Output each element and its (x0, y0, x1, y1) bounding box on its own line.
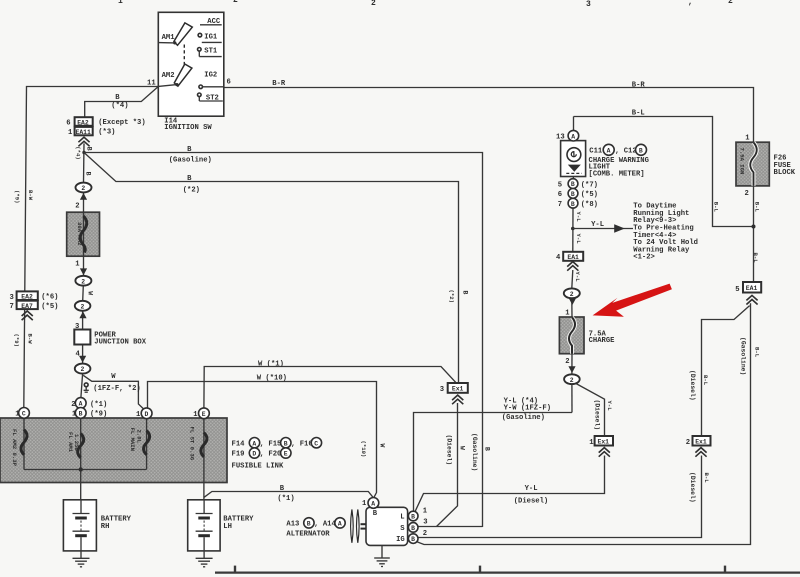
chevron below EA7 (22, 311, 33, 320)
svg-text:B: B (411, 514, 415, 521)
chevron below Ex1-3 (452, 395, 463, 404)
wire Y-L (Diesel) from Ex1-1 to alternator L (415, 456, 605, 513)
node D circle (141, 408, 152, 419)
wire label Y-L (Diesel) (514, 485, 549, 506)
svg-text:5: 5 (558, 181, 562, 189)
svg-text:(*3): (*3) (98, 129, 115, 137)
svg-text:EA1: EA1 (746, 285, 758, 292)
alternator legend A13/A14 (286, 518, 345, 539)
fusible link block (hatched) (0, 418, 227, 483)
svg-text:S: S (400, 525, 405, 533)
svg-text:B: B (115, 94, 120, 102)
svg-text:AM1: AM1 (162, 34, 176, 42)
node E circle (199, 408, 210, 419)
charge warning light labels (556, 134, 649, 209)
svg-text:B: B (571, 191, 575, 198)
circled A after C11 (603, 144, 614, 155)
ignition switch I14 (158, 12, 224, 116)
svg-text:2: 2 (81, 185, 85, 192)
svg-text:(*4): (*4) (75, 146, 82, 159)
wire Y-L (*4) / Y-W (1FZ-F) (Gasoline) run to alternator L (414, 413, 573, 512)
svg-text:1: 1 (15, 411, 20, 419)
svg-text:F19: F19 (232, 451, 245, 459)
wire bus joining fusible links (24, 469, 147, 471)
ground below alternator (374, 545, 390, 566)
power junction box labels (75, 323, 147, 359)
svg-text:B: B (280, 485, 285, 493)
svg-text:B-L: B-L (632, 110, 645, 118)
svg-text:A13: A13 (286, 521, 299, 529)
splice ellipse 2 (above power junction box) (75, 301, 91, 311)
fuse 30A AM2 block (hatched) (67, 212, 100, 256)
svg-text:(*8): (*8) (581, 201, 598, 209)
chevron below Ex1-1 (599, 448, 610, 457)
svg-text:(*6): (*6) (41, 294, 58, 302)
svg-text:B-L: B-L (703, 473, 710, 484)
svg-text:ALTERNATOR: ALTERNATOR (286, 531, 330, 539)
svg-text:B-L: B-L (712, 202, 719, 213)
svg-text:(*5): (*5) (41, 303, 58, 311)
splice ellipse 2 (below power junction box) (75, 364, 91, 374)
svg-text:B: B (307, 521, 311, 528)
svg-text:(*1): (*1) (277, 495, 294, 503)
connector Ex1 pin 1 (595, 436, 613, 446)
wire W from power junction ellipse to node D (83, 375, 144, 409)
svg-text:(Gasoline): (Gasoline) (740, 337, 747, 375)
svg-text:(Diesel): (Diesel) (594, 400, 601, 431)
border tick marks (235, 566, 725, 573)
svg-text:1: 1 (565, 310, 570, 318)
wire node C through fusible link to bus (23, 418, 25, 469)
svg-text:B-L: B-L (753, 202, 760, 213)
svg-text:2: 2 (233, 0, 238, 5)
flow arrow down below ellipse (569, 298, 576, 305)
fuse element FL MAIN (144, 431, 150, 455)
rotated fusible link labels (11, 427, 195, 467)
svg-text:B: B (571, 201, 575, 208)
svg-text:Y-L: Y-L (575, 234, 582, 245)
svg-text:C: C (22, 411, 26, 418)
svg-text:C: C (314, 440, 318, 447)
svg-text:2: 2 (570, 377, 574, 384)
circled B after C12 (636, 144, 647, 155)
svg-text:, C12: , C12 (615, 147, 637, 155)
svg-text:2: 2 (81, 278, 85, 285)
svg-text:(Except *3): (Except *3) (98, 119, 145, 127)
svg-text:(Diesel): (Diesel) (446, 435, 453, 466)
svg-text:1: 1 (72, 411, 77, 419)
svg-text:Y-L: Y-L (606, 401, 613, 412)
svg-text:13: 13 (556, 134, 565, 142)
battery LH label (223, 516, 254, 531)
svg-text:3: 3 (440, 386, 444, 394)
svg-text:1: 1 (118, 0, 123, 6)
chevron below Ex1-2 (695, 448, 706, 457)
connector Ex1 pin 2 (693, 436, 711, 446)
wire label B (*2) (183, 175, 200, 194)
svg-text:2.0L: 2.0L (135, 430, 142, 444)
svg-text:B: B (85, 172, 92, 176)
wire B (*1) battery LH to alternator B terminal (204, 492, 373, 498)
power junction box (74, 330, 90, 345)
svg-text:B: B (411, 536, 415, 543)
wire alternator S pigtail (418, 526, 483, 528)
alternator terminal IG (408, 534, 418, 544)
svg-text:<1-2>: <1-2> (633, 254, 655, 262)
alternator pin labels (362, 500, 428, 544)
fuse element FL AM2 (21, 430, 27, 455)
ignition switch labels (147, 18, 231, 132)
svg-text:B: B (411, 525, 415, 532)
wire ellipse to 7.5A CHARGE fuse pin 1 (571, 298, 573, 317)
svg-text:(*1): (*1) (90, 401, 107, 409)
fuse element FL AM1 (78, 434, 84, 458)
wire B-W from ignition pin 11 to node C (far left vertical) (24, 87, 159, 408)
charge light pin 6 circle B (568, 189, 578, 199)
wire B-L (Diesel) from Ex1-2 down to alternator IG (418, 456, 702, 538)
svg-text:B-L: B-L (752, 253, 759, 264)
svg-text:B-W: B-W (27, 190, 34, 201)
svg-text:1: 1 (136, 411, 141, 419)
wire power junction box pin 4 to ellipse (82, 345, 84, 364)
charge light terminal 13 circle A (568, 130, 579, 141)
svg-text:Ex1: Ex1 (695, 439, 707, 446)
ground below battery RH (73, 551, 90, 567)
wire W (Diesel) from Ex1-3 down to S (437, 403, 458, 527)
arrowhead to relay note (614, 224, 625, 232)
svg-text:EA11: EA11 (76, 129, 92, 136)
svg-text:2: 2 (565, 358, 569, 366)
wire B (*2) from splice to connector Ex1-3 (84, 153, 459, 384)
node junction dot below F26 (752, 225, 756, 229)
bottom border line (215, 571, 800, 573)
flow arrow down above ellipse (79, 356, 86, 363)
wire Y-L (Diesel) ellipse to connector Ex1-1 (575, 383, 605, 436)
svg-text:B: B (284, 440, 288, 447)
wire B-R from ignition pin 6 to fuse block F26 (224, 88, 754, 143)
connector EA11 (pin 1) (75, 127, 93, 136)
svg-text:A: A (79, 401, 83, 408)
svg-text:Y-L: Y-L (574, 272, 581, 283)
svg-text:A: A (338, 521, 342, 528)
svg-text:(Gasoline): (Gasoline) (169, 156, 212, 164)
wire label B (*1) (277, 485, 294, 503)
svg-text:(*10): (*10) (360, 441, 367, 458)
alternator terminal A (pin 1) (368, 498, 379, 509)
wire from splice ellipse to 30A fuse (83, 192, 85, 212)
fuse block F26 (hatched) (736, 142, 769, 186)
svg-text:2: 2 (570, 291, 574, 298)
svg-text:EA2: EA2 (21, 294, 33, 301)
charge warning light C11/C12 (comb. meter) (561, 141, 586, 177)
svg-text:3: 3 (10, 294, 14, 302)
wire W (*1) from node E to connector Ex1-3 (204, 367, 456, 408)
flow arrow up into ellipse (80, 193, 87, 200)
svg-text:AM2: AM2 (162, 72, 175, 80)
svg-text:C11: C11 (589, 147, 603, 155)
wire charge light pin 7 down to EA1-4 (572, 208, 574, 252)
chevron below EA1-4 (567, 262, 578, 271)
wire node B through fusible link to battery RH (80, 418, 82, 500)
wire B-L from charge light terminal 13 to F26 output (574, 117, 754, 227)
fuse element 7.5A CHARGE (569, 317, 575, 353)
svg-text:ST1: ST1 (204, 47, 218, 55)
node junction dot Y-L branch (571, 227, 575, 231)
fusible link legend F14/F15/F16 (232, 438, 322, 449)
wire ellipse down to node A (FL AM1) (81, 374, 83, 398)
svg-text:5: 5 (735, 286, 739, 294)
node B circle (75, 408, 86, 419)
svg-text:D: D (252, 451, 256, 458)
alternator terminal S (408, 523, 418, 533)
wire through charge warning light assembly (572, 141, 574, 179)
connector EA7 (pin 7) left column (17, 301, 38, 310)
svg-text:FL AM2 0.3P: FL AM2 0.3P (11, 429, 18, 467)
svg-text:FUSIBLE LINK: FUSIBLE LINK (232, 463, 284, 471)
svg-text:A: A (607, 147, 611, 154)
svg-text:2: 2 (81, 303, 85, 310)
svg-text:B: B (571, 181, 575, 188)
svg-text:(Gasoline): (Gasoline) (502, 414, 545, 422)
svg-text:1: 1 (423, 508, 428, 516)
chevron below EA1-5 (746, 295, 757, 304)
svg-text:B: B (461, 291, 468, 295)
svg-text:B: B (187, 175, 192, 183)
svg-text:A: A (371, 501, 375, 508)
svg-text:ST2: ST2 (206, 95, 219, 103)
svg-text:IG: IG (396, 536, 405, 544)
svg-text:IG2: IG2 (204, 72, 217, 80)
svg-text:FL MAIN: FL MAIN (129, 428, 136, 452)
svg-text:B: B (484, 447, 491, 451)
svg-text:W: W (459, 446, 466, 450)
wire label B (*4) (111, 94, 128, 110)
fuse 7.5A CHARGE block (hatched) (559, 317, 584, 354)
svg-text:W: W (379, 444, 386, 448)
wire node D through fusible link to bus (146, 419, 148, 470)
svg-text:B: B (373, 510, 378, 518)
svg-text:1: 1 (745, 134, 750, 142)
charge light pin 7 circle B (568, 198, 578, 208)
wire Y-L branch to relays (with arrow) (573, 228, 633, 230)
svg-text:B: B (187, 146, 192, 154)
connector EA2 (pin 6) (75, 117, 93, 126)
flow arrow down above lower ellipse (568, 366, 575, 373)
svg-text:1: 1 (68, 129, 73, 137)
svg-text:B-R: B-R (272, 80, 286, 88)
svg-text:30A AM2: 30A AM2 (76, 222, 83, 246)
svg-text:3: 3 (423, 518, 427, 526)
svg-text:2: 2 (728, 0, 733, 6)
svg-text:D: D (145, 411, 149, 418)
svg-text:2: 2 (81, 366, 85, 373)
svg-text:,: , (688, 0, 693, 7)
svg-text:IG1: IG1 (204, 33, 218, 41)
svg-text:, F20: , F20 (260, 451, 282, 459)
svg-text:2: 2 (686, 439, 690, 447)
svg-text:, F16: , F16 (291, 440, 313, 448)
svg-text:(*7): (*7) (581, 181, 598, 189)
splice ellipse 2 (below CHARGE fuse) (564, 374, 580, 384)
svg-text:2: 2 (371, 0, 376, 8)
svg-text:Y-L: Y-L (591, 221, 604, 229)
connector EA1 pin 5 (743, 282, 761, 293)
node A circle (75, 398, 86, 409)
wire B (*4) from ignition pin 11 down to connector EA2/EA11 (85, 87, 159, 118)
F26 fuse block labels (745, 134, 796, 198)
svg-text:7: 7 (10, 303, 14, 311)
wire labels Y-L (*4) / Y-W (1FZ-F) / (Gasoline) (502, 397, 551, 422)
svg-text:Y-L: Y-L (525, 485, 538, 493)
svg-text:BLOCK: BLOCK (774, 169, 796, 177)
svg-text:(Diesel): (Diesel) (514, 498, 549, 506)
splice ellipse 2 (below 30A fuse) (75, 276, 91, 286)
svg-text:(*5): (*5) (581, 191, 598, 199)
svg-text:(Diesel): (Diesel) (689, 370, 696, 401)
svg-text:7: 7 (558, 201, 562, 209)
CHARGE fuse labels (565, 310, 615, 366)
svg-text:(*9): (*9) (13, 190, 20, 203)
fuse element 30A AM2 (80, 216, 87, 253)
svg-text:, A14: , A14 (314, 521, 336, 529)
svg-text:B: B (79, 411, 83, 418)
node junction dot on bus (79, 467, 83, 471)
svg-text:(*9): (*9) (90, 411, 107, 419)
flow arrow up below ellipse (79, 311, 86, 318)
svg-text:ACC: ACC (207, 18, 221, 26)
wire from connector EA11 down through junction to splice (83, 143, 86, 182)
charge light pin 5 circle B (568, 179, 578, 189)
svg-text:B-L: B-L (753, 347, 760, 358)
svg-text:E: E (284, 451, 288, 458)
flow arrow down into ellipse (80, 268, 87, 275)
svg-text:6: 6 (66, 120, 70, 128)
svg-text:4: 4 (76, 350, 81, 358)
svg-text:B: B (639, 147, 643, 154)
svg-text:(Diesel): (Diesel) (689, 472, 696, 503)
wire Y-L (Gasoline) ellipse down to Y-W junction (571, 384, 573, 412)
svg-text:B-W: B-W (26, 334, 33, 345)
fuse element F26 7.5A IGN (750, 142, 757, 186)
wire node E through fusible link to battery LH (203, 419, 205, 500)
wire B (Gasoline) from splice to alternator S column (84, 153, 483, 528)
svg-text:EA2: EA2 (77, 119, 89, 126)
svg-text:B-R: B-R (632, 81, 646, 89)
wire between stacked ellipses (W) (82, 286, 85, 301)
svg-text:W (*1): W (*1) (258, 360, 284, 368)
svg-text:IGNITION SW: IGNITION SW (164, 124, 212, 132)
svg-text:E: E (202, 411, 206, 418)
node junction dot at B splice (82, 151, 85, 154)
wire label B (Gasoline) (169, 146, 212, 164)
wire through 30A fuse (83, 212, 85, 256)
svg-text:A: A (571, 133, 575, 140)
splice ellipse 2 (below EA splice) (76, 183, 92, 193)
svg-text:(*9): (*9) (13, 334, 20, 347)
connector EA1 pin 4 (563, 252, 583, 261)
svg-text:RH: RH (101, 523, 110, 531)
ground symbol (1FZ-F, *2) mini (84, 383, 89, 392)
splice ellipse 2 (above CHARGE fuse) (564, 288, 580, 298)
svg-text:[COMB. METER]: [COMB. METER] (589, 171, 645, 179)
svg-text:1: 1 (362, 500, 367, 508)
svg-text:EA1: EA1 (567, 254, 579, 261)
wire B-L (Diesel) Ex1-2 upper run to EA1-5 (702, 306, 750, 436)
svg-text:1: 1 (193, 411, 198, 419)
svg-text:6: 6 (227, 79, 231, 87)
battery RH (63, 500, 96, 551)
chevron below EA11 (78, 137, 89, 146)
svg-text:2: 2 (71, 401, 75, 409)
svg-text:1.25B: 1.25B (73, 434, 80, 451)
svg-text:CHARGE: CHARGE (589, 337, 616, 345)
connector EA2 (pin 3) left column (17, 291, 38, 300)
svg-text:EA7: EA7 (21, 303, 33, 310)
svg-text:4: 4 (556, 254, 561, 262)
to daytime running light relay note (633, 203, 698, 262)
wire charge light drop to terminal 13 (573, 117, 575, 131)
alternator A13/A14 (351, 507, 408, 545)
wire W (*10) from node D to alternator B terminal (148, 382, 377, 498)
svg-text:(1FZ-F, *2): (1FZ-F, *2) (93, 385, 140, 393)
svg-text:1: 1 (75, 261, 80, 269)
svg-text:Ex1: Ex1 (598, 439, 610, 446)
node pin labels A/B/C/D/E (15, 401, 198, 419)
wire ellipse to power junction box pin 3 (82, 311, 84, 330)
svg-text:2: 2 (423, 530, 427, 538)
svg-text:7.5A IGN: 7.5A IGN (739, 148, 746, 175)
svg-text:W (*10): W (*10) (257, 374, 287, 382)
battery RH label (101, 516, 132, 531)
labels of connector EA2/EA7 pins (10, 294, 59, 312)
svg-text:B: B (86, 147, 93, 151)
svg-text:W: W (87, 291, 94, 295)
wire B-L (Gasoline) from EA1-5 down to alternator IG (417, 303, 751, 544)
faint cut-off glyphs at top edge (118, 0, 733, 9)
svg-text:(*2): (*2) (183, 186, 200, 194)
svg-text:Y-L: Y-L (575, 212, 582, 223)
wire CHARGE fuse pin 2 to ellipse (571, 354, 573, 375)
svg-text:3: 3 (586, 0, 591, 9)
svg-text:6: 6 (558, 191, 562, 199)
wire EA1-4 to ellipse (572, 270, 573, 288)
wire 30A fuse to ellipse 2 (83, 256, 85, 276)
battery LH (188, 500, 220, 551)
svg-text:2: 2 (745, 190, 749, 198)
svg-text:1: 1 (589, 439, 594, 447)
svg-text:W: W (111, 373, 116, 381)
fusible link legend F19/F20 (232, 448, 291, 459)
alternator terminal L (408, 511, 418, 521)
svg-text:FL ST 0.3G: FL ST 0.3G (188, 427, 195, 461)
svg-text:L: L (400, 514, 404, 522)
svg-text:B-L: B-L (702, 375, 709, 386)
svg-text:, F15: , F15 (260, 440, 282, 448)
ground below battery LH (196, 551, 213, 567)
svg-text:FL AM1: FL AM1 (67, 432, 74, 453)
svg-text:LH: LH (223, 523, 232, 531)
svg-text:Y-W (1FZ-F): Y-W (1FZ-F) (504, 405, 551, 413)
svg-text:Ex1: Ex1 (452, 386, 464, 393)
svg-text:(*4): (*4) (111, 102, 128, 110)
svg-text:(*2): (*2) (448, 290, 455, 303)
fuse element FL ST (201, 433, 207, 457)
svg-text:F14: F14 (232, 440, 246, 448)
svg-text:3: 3 (75, 323, 79, 331)
svg-text:A: A (252, 440, 256, 447)
svg-text:11: 11 (147, 80, 156, 88)
svg-text:2: 2 (75, 203, 79, 211)
